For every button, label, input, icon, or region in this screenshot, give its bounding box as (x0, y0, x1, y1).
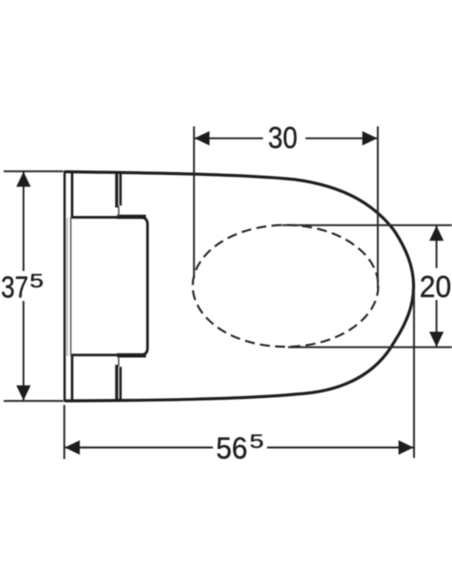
svg-text:20: 20 (420, 269, 452, 304)
svg-text:56: 56 (216, 430, 248, 465)
inner bowl dashed ellipse (193, 225, 379, 347)
box left edge (faint) (70, 217, 72, 356)
dim 565: right extension line (413, 292, 415, 458)
dim 20: top extension line (282, 224, 452, 226)
dim 30: right arrow (362, 131, 377, 145)
dim 375: top extension line (4, 170, 63, 172)
dim 565: dimension line left segment (64, 447, 213, 449)
bottom step double line left (115, 365, 118, 400)
dim 565: right arrow (399, 440, 414, 454)
dim 30: left arrow (195, 131, 210, 145)
dim 565: dimension line right segment (267, 447, 414, 449)
left inner surface line (faint) (66, 218, 68, 356)
svg-text:30: 30 (268, 120, 298, 155)
top step thin connector (118, 206, 120, 217)
dim 30: right extension line (377, 126, 379, 288)
bowl outline (top view, outer ceramic rim) (65, 172, 413, 401)
second ceramic line lower segment (71, 354, 74, 402)
svg-text:5: 5 (250, 431, 264, 453)
dim 30: dimension line right segment (306, 137, 378, 139)
dim 375: up arrow (16, 172, 30, 187)
dim 375: dimension line top segment (23, 171, 25, 271)
second ceramic line upper segment (71, 171, 74, 218)
box bottom thick jog segment (117, 353, 146, 357)
dim 565: left extension line (63, 405, 65, 459)
top step double line left (115, 173, 118, 208)
dim 20: dimension line bottom segment (436, 300, 438, 347)
dim 20: down arrow (429, 332, 443, 347)
bottom step thin connector (118, 356, 120, 366)
svg-text:37: 37 (1, 270, 29, 305)
box top thick jog segment (117, 215, 146, 219)
bottom step double line right (119, 367, 121, 400)
dim 30: dimension line left segment (194, 137, 263, 139)
top step double line right (119, 173, 121, 206)
dim 375: down arrow (16, 385, 30, 400)
dim 20: bottom extension line (288, 346, 452, 348)
dim 375: dimension line bottom segment (23, 301, 25, 401)
dim 20: up arrow (429, 226, 443, 241)
dim 565: left arrow (65, 440, 80, 454)
dim 30: left extension line (193, 126, 195, 278)
dim 20: dimension line top segment (436, 225, 438, 268)
svg-text:5: 5 (30, 271, 44, 293)
dim 375: bottom extension line (4, 400, 63, 402)
mounting plate box (71, 217, 147, 355)
left outer edge (wall side, double line) (63, 171, 65, 403)
